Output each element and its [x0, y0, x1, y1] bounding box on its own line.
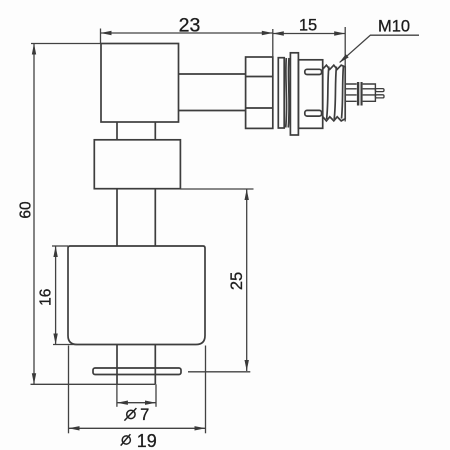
thread outline — [323, 65, 346, 121]
extension line d19 right — [205, 346, 207, 434]
terminal left cylinder — [345, 84, 356, 101]
arrow 25 bottom — [245, 360, 249, 371]
svg-text:60: 60 — [18, 201, 35, 219]
stop ring rectangle — [94, 140, 180, 189]
arrow 15 right — [334, 31, 345, 35]
wave gasket — [286, 58, 289, 128]
arrow 15 left — [273, 31, 284, 35]
dimension line 25 — [246, 189, 248, 371]
extension line 60 bottom — [31, 383, 156, 385]
arrow 16 bottom — [53, 334, 57, 345]
leader line M10 — [340, 35, 419, 62]
arrow 25 top — [245, 189, 249, 200]
float body — [68, 246, 205, 345]
pin upper — [375, 89, 384, 92]
body slot upper — [305, 69, 322, 74]
stem segment middle — [117, 189, 155, 246]
extension line 23/15 shared — [272, 29, 274, 57]
svg-text:16: 16 — [38, 289, 55, 306]
svg-text:15: 15 — [299, 16, 317, 34]
extension line 60 top — [31, 43, 101, 45]
extension line d7 left — [116, 384, 118, 407]
extension line d19 left — [68, 346, 70, 434]
neck tube upper line — [179, 73, 246, 75]
extension line 25 top — [181, 188, 254, 190]
dimension line d7 — [117, 402, 156, 404]
svg-text:7: 7 — [140, 406, 149, 424]
terminal plate 1 — [357, 82, 359, 106]
dimension line d19 — [69, 427, 206, 429]
svg-text:23: 23 — [179, 15, 201, 37]
body slot lower — [305, 110, 322, 116]
extension line 23 left — [100, 29, 102, 44]
arrow 60 bottom — [32, 373, 36, 384]
label d7 — [124, 408, 136, 421]
dimension line 15 — [273, 33, 345, 35]
dimension line 16 — [55, 246, 57, 345]
svg-text:M10: M10 — [378, 17, 410, 35]
stem segment upper — [117, 122, 155, 140]
washer — [278, 58, 284, 128]
arrow M10 leader — [339, 54, 349, 63]
svg-text:19: 19 — [137, 431, 157, 450]
extension line 16 bottom — [53, 344, 77, 346]
body cylinder — [298, 60, 322, 129]
arrow 23 right — [262, 31, 273, 35]
hex nut — [246, 57, 273, 128]
extension line 15 right and thread edge — [344, 27, 346, 122]
dimension line 23 — [101, 32, 273, 34]
arrow 16 top — [53, 246, 57, 257]
arrow d7 right — [145, 401, 156, 405]
arrow d7 left — [117, 401, 128, 405]
mounting flange — [290, 53, 298, 135]
extension line d7 right — [155, 384, 157, 407]
arrow d19 left — [69, 426, 80, 430]
arrow 23 left — [101, 31, 112, 35]
housing square body — [101, 44, 179, 123]
arrow d19 right — [195, 426, 206, 430]
svg-text:25: 25 — [228, 272, 246, 290]
label d19 — [121, 434, 131, 445]
extension line 25 bottom — [188, 371, 250, 373]
terminal plate 2 — [361, 82, 363, 106]
terminal right cylinder — [363, 84, 376, 101]
pin lower — [375, 95, 384, 98]
dimension line 60 — [33, 44, 35, 385]
retaining clip — [93, 368, 181, 375]
hex nut facet lines — [246, 77, 273, 109]
arrow 60 top — [32, 44, 36, 55]
stem segment lower — [117, 345, 155, 385]
extension line 16 top — [52, 245, 68, 247]
neck tube lower line — [179, 110, 246, 112]
thread crest lines — [327, 66, 344, 119]
